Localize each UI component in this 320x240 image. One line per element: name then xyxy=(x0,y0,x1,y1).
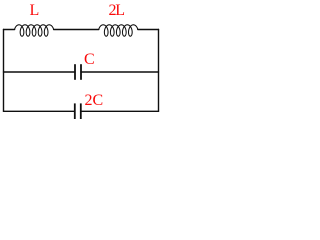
wire: top-left segment xyxy=(4,29,15,31)
inductor L xyxy=(15,25,54,36)
capacitor C left plate xyxy=(74,64,76,80)
wire: left vertical side xyxy=(3,30,5,112)
label 2L xyxy=(109,3,124,19)
wire: top-right segment xyxy=(138,29,159,31)
capacitor C right plate xyxy=(80,64,82,80)
label L xyxy=(30,3,40,19)
capacitor 2C right plate xyxy=(80,103,82,119)
label C xyxy=(84,52,95,68)
wire: top-middle segment xyxy=(54,29,99,31)
inductor 2L xyxy=(99,25,138,36)
wire: bottom-left segment xyxy=(4,110,75,112)
label 2C xyxy=(85,93,104,109)
capacitor 2C left plate xyxy=(74,103,76,119)
wire: middle-left segment xyxy=(4,71,76,73)
wire: middle-right segment xyxy=(81,71,159,73)
wire: right vertical side xyxy=(158,30,160,112)
wire: bottom-right segment xyxy=(81,110,159,112)
